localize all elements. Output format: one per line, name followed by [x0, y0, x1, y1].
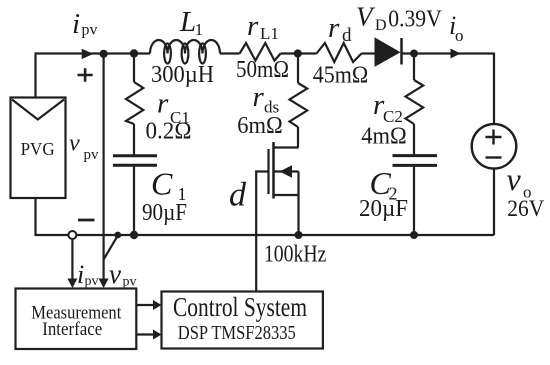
label r_C1 [157, 88, 190, 128]
minus sign inside source [486, 156, 502, 158]
node C junction dot after diode [410, 50, 418, 58]
svg-text:d: d [342, 25, 352, 46]
plus sign inside source [486, 130, 502, 145]
svg-text:pv: pv [84, 147, 100, 163]
wire r_C2 to C2 [413, 124, 415, 154]
capacitor branch C2 wire upper [413, 54, 415, 81]
svg-text:o: o [455, 26, 464, 45]
junction dot C2 bottom [410, 231, 418, 239]
arrow i_pv measurement [67, 279, 77, 289]
svg-text:4mΩ: 4mΩ [361, 124, 407, 150]
label C2 [370, 165, 398, 204]
svg-text:Interface: Interface [42, 320, 102, 340]
resistor r_d [317, 43, 362, 62]
svg-text:100kHz: 100kHz [264, 241, 327, 267]
wire r_d to diode [362, 52, 376, 54]
wire top-left from PVG to node A [35, 54, 151, 98]
svg-text:d: d [229, 176, 247, 213]
wire C2 to bottom [413, 167, 415, 235]
junction dot source bottom [295, 231, 303, 239]
svg-text:1: 1 [195, 20, 204, 39]
svg-text:i: i [77, 260, 84, 289]
plus sign pv terminal [78, 68, 93, 81]
svg-text:PVG: PVG [21, 139, 55, 159]
junction dot r_ds branch [294, 49, 302, 57]
label v_pv measurement [109, 259, 137, 290]
capacitor C2 plates [393, 156, 438, 166]
svg-text:V: V [356, 2, 376, 32]
svg-text:50mΩ: 50mΩ [236, 57, 289, 83]
wire source to bottom [493, 169, 495, 235]
svg-text:D: D [375, 17, 387, 34]
wire v_pv measurement [102, 54, 104, 280]
label v_pv [69, 131, 99, 164]
svg-text:i: i [72, 8, 80, 40]
svg-text:0.39V: 0.39V [388, 7, 442, 33]
resistor r_L1 [240, 43, 281, 61]
svg-text:pv: pv [123, 275, 137, 290]
arrow measurement to control 2 [136, 330, 161, 340]
measurement terminal circle [68, 231, 76, 239]
PVG box [11, 98, 66, 199]
svg-text:pv: pv [85, 274, 99, 289]
svg-text:6mΩ: 6mΩ [237, 113, 283, 139]
label r_d [328, 12, 352, 46]
svg-text:Control System: Control System [173, 292, 307, 322]
svg-text:0.2Ω: 0.2Ω [146, 119, 192, 145]
svg-text:pv: pv [82, 22, 98, 39]
svg-text:v: v [109, 259, 121, 289]
capacitor C1 plates [113, 156, 157, 165]
label measurement interface text [31, 303, 122, 339]
label C1 [151, 165, 187, 204]
wire C1 to bottom [133, 167, 135, 235]
wire r_L1 to r_d [281, 52, 317, 54]
resistor r_C1 [126, 82, 143, 124]
arrow i_pv current direction [82, 49, 94, 59]
label r_ds [253, 81, 280, 117]
wire i_pv measurement [71, 239, 73, 279]
wire diagonal tap [104, 236, 118, 260]
svg-text:r: r [157, 88, 169, 120]
wire L1 to r_L1 [220, 52, 240, 54]
PVG chevron symbol [12, 100, 64, 120]
arrow v_pv measurement [99, 279, 109, 289]
junction dot tap [114, 232, 121, 239]
label r_C2 [373, 89, 403, 126]
svg-text:45mΩ: 45mΩ [313, 63, 369, 89]
control system box [162, 292, 323, 349]
wire PVG bottom lead [35, 198, 69, 236]
gate drive wire from control system [256, 172, 268, 292]
svg-text:20µF: 20µF [359, 196, 408, 222]
label i_pv top [72, 8, 98, 40]
resistor r_C2 [406, 80, 424, 124]
switch branch wire from node to r_ds [297, 54, 299, 84]
node A junction dot [100, 50, 108, 58]
voltage source v_o circle [472, 124, 517, 169]
junction dot C1 bottom [130, 231, 138, 239]
capacitor branch C1 wire upper [133, 54, 135, 83]
node B junction dot [130, 49, 138, 57]
arrow i_o current direction [451, 49, 461, 59]
svg-text:v: v [507, 161, 522, 197]
label i_o [449, 11, 464, 45]
resistor r_ds [290, 83, 308, 127]
inductor L1 [150, 40, 220, 64]
diode V_D [375, 37, 402, 67]
svg-text:L: L [179, 6, 196, 38]
svg-text:r: r [247, 10, 259, 42]
arrow measurement to control 1 [136, 300, 161, 310]
bottom wire [76, 234, 494, 236]
minus sign pv terminal [78, 219, 95, 222]
label V_D [356, 2, 387, 34]
label v_o [507, 161, 532, 202]
svg-text:C: C [151, 165, 173, 201]
svg-text:r: r [253, 81, 265, 113]
wire r_ds to MOSFET drain [297, 127, 299, 148]
svg-text:L1: L1 [260, 24, 279, 43]
svg-text:90µF: 90µF [142, 200, 187, 226]
label i_pv measurement [77, 260, 99, 289]
measurement interface box [16, 289, 137, 350]
wire r_C1 to C1 [133, 124, 135, 155]
svg-text:300µH: 300µH [151, 62, 214, 88]
svg-text:v: v [69, 131, 80, 157]
label r_L1 [247, 10, 279, 43]
svg-text:r: r [328, 12, 340, 44]
svg-text:DSP TMSF28335: DSP TMSF28335 [178, 322, 296, 344]
wire diode to output corner [403, 53, 495, 125]
label L1 [179, 6, 203, 39]
svg-text:26V: 26V [507, 196, 544, 221]
transistor Q1 MOSFET [269, 142, 299, 235]
